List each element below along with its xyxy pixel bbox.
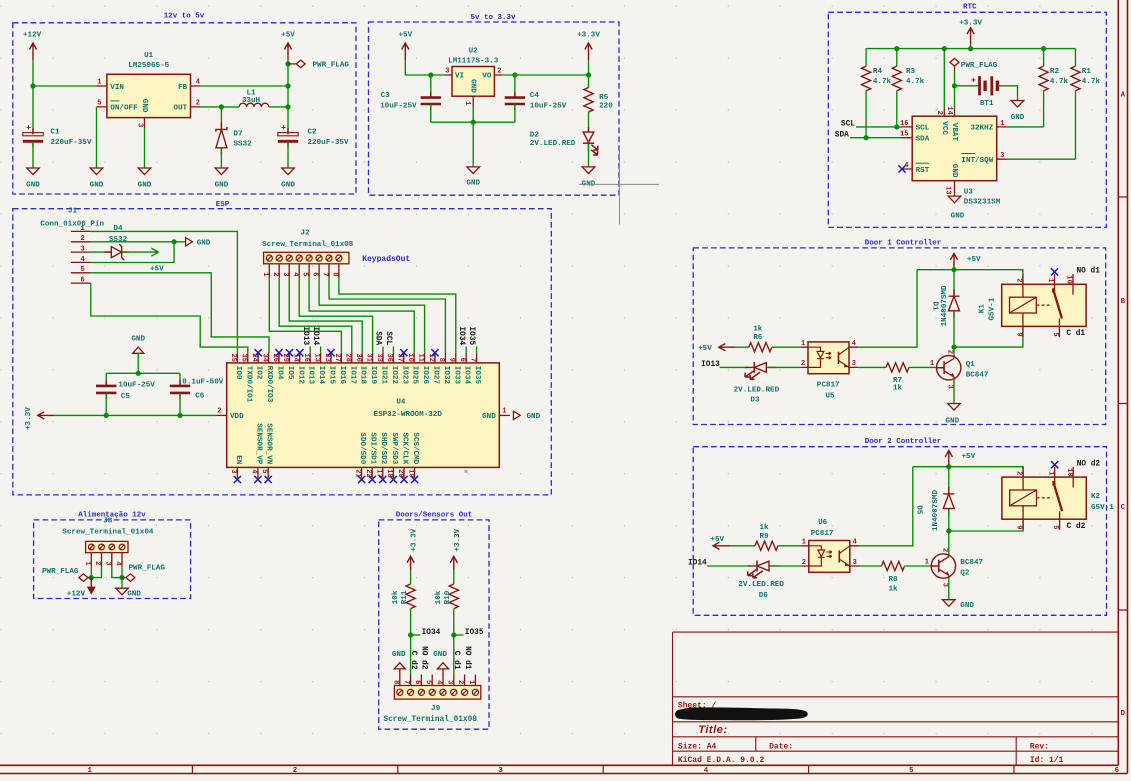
wire +12V to VIN and C1 <box>32 60 34 134</box>
wire VO <box>502 74 588 76</box>
svg-text:1: 1 <box>261 272 269 276</box>
svg-text:D2: D2 <box>530 131 540 139</box>
svg-text:9: 9 <box>1015 525 1023 529</box>
svg-text:5: 5 <box>80 266 84 274</box>
svg-text:U6: U6 <box>818 519 828 527</box>
wire to opto pin4 door2 <box>859 467 913 546</box>
svg-text:IO23: IO23 <box>400 366 408 385</box>
svg-text:+5V: +5V <box>967 256 981 264</box>
svg-text:C3: C3 <box>381 92 391 100</box>
terminal J9 Screw_Terminal_01x08 <box>394 686 480 700</box>
svg-text:SWP/SD3: SWP/SD3 <box>390 432 398 464</box>
svg-text:C d1: C d1 <box>1066 330 1085 338</box>
svg-text:IO33: IO33 <box>452 366 460 385</box>
svg-text:VDD: VDD <box>230 413 244 421</box>
svg-text:J9: J9 <box>431 705 441 713</box>
svg-text:IO34: IO34 <box>457 327 465 346</box>
svg-text:28: 28 <box>344 354 352 362</box>
wire J1 pin5 +5V to IO3 <box>91 273 269 353</box>
svg-text:IO2: IO2 <box>255 366 263 380</box>
svg-text:R8: R8 <box>888 576 898 584</box>
svg-text:13: 13 <box>312 354 320 362</box>
svg-text:6: 6 <box>458 358 466 362</box>
svg-text:1: 1 <box>925 558 929 566</box>
svg-text:R1: R1 <box>1082 68 1092 76</box>
svg-text:4: 4 <box>250 469 258 473</box>
junction +12V/VIN <box>30 83 35 88</box>
wire J3 pin1/2 to +12V <box>90 566 92 586</box>
svg-text:4: 4 <box>704 767 709 775</box>
svg-text:Door 2 Controller: Door 2 Controller <box>865 438 942 446</box>
ground U1 <box>138 168 151 175</box>
hier label GND J1 <box>186 238 193 246</box>
junction cap bus <box>136 371 141 376</box>
wire D2 to ground <box>588 143 590 167</box>
svg-text:IO12: IO12 <box>296 366 304 385</box>
svg-text:3: 3 <box>498 767 503 775</box>
wire pwr flag to battery node <box>954 70 956 108</box>
svg-text:+5V: +5V <box>281 32 295 40</box>
svg-text:16: 16 <box>302 354 310 362</box>
svg-text:RST: RST <box>916 167 930 175</box>
svg-text:3: 3 <box>940 583 948 587</box>
svg-text:+3.3V: +3.3V <box>454 528 462 551</box>
no-connect marks U4 top <box>255 349 262 356</box>
transistor Q2 BC847 <box>931 554 955 578</box>
svg-text:2: 2 <box>801 360 805 368</box>
section box Door 1 Controller <box>693 248 1105 425</box>
svg-text:4: 4 <box>291 272 299 276</box>
U4 bottom pins SD <box>361 467 363 478</box>
ground C1 <box>27 168 40 175</box>
wire R11 to IO34 node <box>410 609 412 675</box>
LED D6 2V.LED.RED <box>748 565 779 567</box>
capacitor C3 10uF-25V <box>430 75 432 98</box>
svg-text:22: 22 <box>364 469 372 477</box>
svg-text:0.1uF-50V: 0.1uF-50V <box>182 378 223 386</box>
svg-text:4.7k: 4.7k <box>906 78 925 86</box>
wire Q2 collector <box>948 531 950 554</box>
junction PWR_FLAG node <box>285 61 290 66</box>
svg-text:1: 1 <box>467 680 475 684</box>
svg-text:8: 8 <box>437 358 445 362</box>
svg-text:1k: 1k <box>759 524 769 532</box>
junction C5 vdd <box>104 413 109 418</box>
svg-text:10: 10 <box>406 354 414 362</box>
svg-text:+: + <box>971 76 976 86</box>
U4 right pin GND <box>499 414 510 416</box>
section box Alimentacao 12v <box>34 520 191 599</box>
svg-text:IO34: IO34 <box>422 629 441 637</box>
svg-text:Date:: Date: <box>769 742 793 751</box>
junction bus R2 <box>1041 46 1046 51</box>
svg-text:14: 14 <box>945 106 953 114</box>
svg-text:PC817: PC817 <box>811 530 834 538</box>
svg-text:3: 3 <box>229 469 237 473</box>
optocoupler U5 PC817 <box>808 342 849 374</box>
svg-text:2V.LED.RED: 2V.LED.RED <box>738 581 784 589</box>
svg-text:SS32: SS32 <box>234 141 253 149</box>
junction bus R3 <box>894 46 899 51</box>
svg-text:SENSOR_VP: SENSOR_VP <box>254 423 262 464</box>
svg-text:GND: GND <box>945 418 959 426</box>
wire R8 to Q2 base <box>905 565 932 567</box>
svg-text:VI: VI <box>455 73 464 81</box>
svg-text:GND: GND <box>1011 114 1025 122</box>
svg-text:3: 3 <box>445 680 453 684</box>
svg-text:C: C <box>1121 504 1126 512</box>
label IO14 stub <box>320 347 322 353</box>
svg-text:5: 5 <box>1051 525 1059 529</box>
svg-text:GND: GND <box>138 182 152 190</box>
svg-text:20: 20 <box>396 469 404 477</box>
svg-text:2: 2 <box>1015 471 1023 475</box>
wire R5 to D2 <box>588 112 590 132</box>
svg-text:GND: GND <box>469 79 477 93</box>
resistor R6 1k <box>749 343 772 352</box>
wire battery right to gnd <box>998 86 1017 101</box>
relay K1 G5V-1 <box>1002 284 1086 326</box>
svg-text:+12V: +12V <box>67 590 86 598</box>
svg-text:2: 2 <box>93 561 101 565</box>
U4 bottom-left pins EN SENSOR_VP SENSOR_VN <box>236 467 238 478</box>
svg-text:U1: U1 <box>144 52 154 60</box>
junction FB node <box>285 83 290 88</box>
wire VIN <box>33 85 97 87</box>
svg-text:PWR_FLAG: PWR_FLAG <box>42 568 79 576</box>
svg-text:3: 3 <box>853 559 857 567</box>
power +3.3V out <box>585 43 592 60</box>
svg-text:IO13: IO13 <box>307 366 315 385</box>
power +5V r6 <box>719 344 736 351</box>
ground D7 <box>215 168 228 175</box>
svg-text:33: 33 <box>375 354 383 362</box>
svg-text:GND: GND <box>26 182 40 190</box>
svg-text:Screw_Terminal_01x04: Screw_Terminal_01x04 <box>62 529 154 537</box>
svg-text:Screw_Terminal_01x08: Screw_Terminal_01x08 <box>262 241 354 249</box>
diode D7 SS32 <box>220 107 222 129</box>
svg-text:LM25965-5: LM25965-5 <box>128 62 169 70</box>
wire +5V to R6 <box>736 346 749 348</box>
wire U1 GND pin <box>144 128 146 168</box>
hier label GND U4 <box>513 411 520 419</box>
svg-text:+: + <box>26 123 31 133</box>
wire VCC drop <box>943 49 945 108</box>
wires J2 to U4 <box>269 278 341 353</box>
svg-text:4: 4 <box>196 79 200 87</box>
power +5V out <box>284 43 291 60</box>
svg-text:7: 7 <box>468 358 476 362</box>
svg-text:G5V-1: G5V-1 <box>1091 504 1114 512</box>
svg-text:D1: D1 <box>931 302 939 312</box>
power +5V in <box>402 43 409 60</box>
power +3.3V rtc <box>967 28 974 45</box>
svg-text:GND: GND <box>281 182 295 190</box>
svg-text:4: 4 <box>114 561 122 565</box>
power flag PWR_FLAG <box>288 63 296 65</box>
svg-text:C d2: C d2 <box>1067 523 1086 531</box>
svg-text:18: 18 <box>385 469 393 477</box>
junction bus VCC <box>942 46 947 51</box>
svg-text:BC847: BC847 <box>966 371 989 379</box>
svg-text:5: 5 <box>301 272 309 276</box>
svg-text:C4: C4 <box>530 92 540 100</box>
svg-text:GND: GND <box>466 180 480 188</box>
svg-text:D6: D6 <box>759 592 769 600</box>
power +12V down <box>90 577 92 587</box>
junction J1 pin2/pin4 <box>172 239 177 244</box>
svg-text:1k: 1k <box>753 326 763 334</box>
svg-text:KiCad E.D.A. 9.0.2: KiCad E.D.A. 9.0.2 <box>678 756 765 765</box>
wire Q1 collector <box>953 347 955 355</box>
svg-text:SCL: SCL <box>384 331 392 345</box>
svg-text:+5V: +5V <box>150 266 164 274</box>
svg-text:SDA: SDA <box>916 136 930 144</box>
wire ON/OFF to gnd <box>96 107 98 168</box>
svg-text:Id: 1/1: Id: 1/1 <box>1030 756 1064 765</box>
resistor R10 10k <box>449 584 458 609</box>
diode D5 1N4007SMD <box>948 467 950 494</box>
svg-text:R7: R7 <box>893 377 903 385</box>
svg-text:Doors/Sensors Out: Doors/Sensors Out <box>396 512 473 520</box>
junction OUT/D7 <box>219 104 224 109</box>
capacitor C2 220uF-35V <box>287 128 289 147</box>
svg-text:R3: R3 <box>906 68 916 76</box>
svg-text:J2: J2 <box>300 230 310 238</box>
svg-text:220uF-35V: 220uF-35V <box>50 139 91 147</box>
svg-text:R2: R2 <box>1050 68 1060 76</box>
svg-text:6: 6 <box>1115 767 1120 775</box>
wire to opto pin4 <box>858 270 917 348</box>
svg-text:Screw_Terminal_01x08: Screw_Terminal_01x08 <box>383 716 477 724</box>
svg-text:BC847: BC847 <box>960 559 983 567</box>
svg-text:IO35: IO35 <box>465 629 484 637</box>
svg-text:IO34: IO34 <box>463 366 471 385</box>
resistor R1 4.7k <box>1075 49 1077 67</box>
LED D3 2V.LED.RED <box>745 366 776 368</box>
svg-text:+5V: +5V <box>710 536 724 544</box>
svg-text:7: 7 <box>402 680 410 684</box>
svg-text:IO14: IO14 <box>311 327 319 346</box>
svg-text:3: 3 <box>103 561 111 565</box>
svg-text:IO15: IO15 <box>328 366 336 385</box>
svg-text:1: 1 <box>502 407 506 415</box>
svg-text:4.7k: 4.7k <box>1050 78 1069 86</box>
rtc top bus <box>866 48 1075 50</box>
svg-text:Size: A4: Size: A4 <box>678 742 717 751</box>
svg-text:3: 3 <box>445 68 449 76</box>
ground ON/OFF <box>90 168 103 175</box>
svg-text:SENSOR_VN: SENSOR_VN <box>265 423 273 464</box>
svg-text:INT/SQW: INT/SQW <box>961 157 993 165</box>
svg-text:3: 3 <box>281 272 289 276</box>
svg-text:GND: GND <box>951 213 965 221</box>
svg-text:1: 1 <box>802 539 806 547</box>
svg-text:5: 5 <box>909 767 914 775</box>
svg-text:35: 35 <box>240 354 248 362</box>
svg-text:6: 6 <box>311 272 319 276</box>
svg-text:IO5: IO5 <box>286 366 294 380</box>
svg-text:U5: U5 <box>826 393 836 401</box>
svg-text:IO21: IO21 <box>380 366 388 385</box>
svg-text:220: 220 <box>599 102 613 110</box>
door2 rail to relay <box>949 519 1023 531</box>
wire IO13 to LED D3 <box>720 366 749 368</box>
label SCL stub <box>392 347 394 353</box>
svg-text:D7: D7 <box>234 130 244 138</box>
svg-text:12v to 5v: 12v to 5v <box>164 13 205 21</box>
ground U2 <box>467 167 480 174</box>
svg-text:GND: GND <box>482 413 496 421</box>
LED D2 2V.LED.RED <box>588 127 590 151</box>
resistor R8 1k <box>882 561 905 570</box>
svg-text:10k: 10k <box>435 590 443 604</box>
label IO35 out <box>454 634 464 636</box>
svg-text:3: 3 <box>852 360 856 368</box>
svg-text:SCL: SCL <box>841 120 855 128</box>
svg-text:220uF-35V: 220uF-35V <box>308 139 349 147</box>
junction C3 <box>428 72 433 77</box>
section box 5v to 3.3v <box>369 22 620 195</box>
svg-text:IO17: IO17 <box>348 366 356 385</box>
svg-text:1: 1 <box>463 101 471 105</box>
svg-text:1: 1 <box>87 767 92 775</box>
svg-text:GND: GND <box>527 413 541 421</box>
svg-text:RTC: RTC <box>963 4 977 12</box>
svg-text:R5: R5 <box>599 94 609 102</box>
power GND J9 pin8 <box>394 663 405 669</box>
svg-text:2: 2 <box>271 272 279 276</box>
junction IO35 <box>451 632 456 637</box>
svg-text:6: 6 <box>80 277 84 285</box>
svg-text:36: 36 <box>385 354 393 362</box>
svg-text:32KHZ: 32KHZ <box>971 125 994 133</box>
U4 top pins <box>236 353 238 363</box>
svg-text:2: 2 <box>1015 278 1023 282</box>
svg-text:1: 1 <box>1000 120 1004 128</box>
svg-text:3: 3 <box>1000 152 1004 160</box>
svg-text:GND: GND <box>215 182 229 190</box>
wire D4 arrow <box>122 248 159 256</box>
esp32 module U4 ESP32-WROOM-32D <box>227 363 500 468</box>
svg-text:G5V-1: G5V-1 <box>989 297 997 320</box>
door2 top bus <box>913 467 1023 477</box>
junction +5V door2 <box>946 464 951 469</box>
svg-text:Rev:: Rev: <box>1030 742 1049 751</box>
svg-text:1N4007SMD: 1N4007SMD <box>932 490 940 531</box>
wire R9 to opto1 door2 <box>778 545 801 547</box>
svg-text:SHD/SD2: SHD/SD2 <box>379 432 387 464</box>
svg-text:ON/OFF: ON/OFF <box>110 105 138 113</box>
svg-text:IO16: IO16 <box>338 366 346 385</box>
svg-text:25: 25 <box>229 354 237 362</box>
svg-text:PWR_FLAG: PWR_FLAG <box>961 62 998 70</box>
svg-text:2: 2 <box>217 407 221 415</box>
no-connect RST <box>898 165 905 172</box>
svg-text:IO4: IO4 <box>276 366 284 380</box>
label IO13 stub <box>309 347 311 353</box>
svg-text:10uF-25V: 10uF-25V <box>530 102 567 110</box>
svg-text:R11: R11 <box>401 590 409 604</box>
svg-text:9: 9 <box>448 358 456 362</box>
svg-text:GND: GND <box>140 99 148 113</box>
svg-text:2V.LED.RED: 2V.LED.RED <box>734 387 780 395</box>
svg-text:+: + <box>281 123 286 133</box>
svg-text:2: 2 <box>456 680 464 684</box>
svg-text:2: 2 <box>196 100 200 108</box>
section box ESP <box>13 209 552 495</box>
svg-text:SCK/CLK: SCK/CLK <box>400 432 408 464</box>
resistor R11 10k <box>406 584 415 609</box>
svg-text:11: 11 <box>416 354 424 362</box>
svg-text:4: 4 <box>435 680 443 684</box>
ground U3 <box>948 196 961 203</box>
capacitor C5 10uF-25V <box>105 373 107 386</box>
svg-text:5: 5 <box>1051 332 1059 336</box>
svg-text:10: 10 <box>1065 468 1073 476</box>
svg-text:VBAT: VBAT <box>950 123 958 142</box>
svg-text:GND: GND <box>960 602 974 610</box>
svg-text:IO25: IO25 <box>411 366 419 385</box>
svg-text:SDO/SD0: SDO/SD0 <box>358 432 366 464</box>
svg-text:IO35: IO35 <box>473 366 481 385</box>
svg-text:NO d1: NO d1 <box>463 646 471 670</box>
svg-text:C6: C6 <box>195 392 205 400</box>
junction IO34 <box>408 632 413 637</box>
svg-text:10: 10 <box>1065 275 1073 283</box>
svg-text:J1: J1 <box>68 208 78 216</box>
wire J1 pin2 to GND label <box>91 241 186 243</box>
svg-text:SDA: SDA <box>374 331 382 345</box>
svg-text:2: 2 <box>293 767 297 775</box>
svg-text:D4: D4 <box>113 225 123 233</box>
svg-text:4: 4 <box>853 539 857 547</box>
svg-text:LM1117S-3.3: LM1117S-3.3 <box>448 58 499 66</box>
section box RTC <box>828 12 1106 227</box>
svg-text:SDI/SD1: SDI/SD1 <box>369 432 377 464</box>
svg-text:Title:: Title: <box>698 724 727 736</box>
wire Q1 emitter to gnd <box>953 380 955 404</box>
svg-text:IO27: IO27 <box>432 366 440 385</box>
junction R3 SCL <box>894 124 899 129</box>
svg-text:9: 9 <box>1015 332 1023 336</box>
svg-text:3: 3 <box>136 123 144 127</box>
junction bus +3.3V <box>968 46 973 51</box>
resistor R3 4.7k <box>896 49 898 67</box>
svg-text:Door 1 Controller: Door 1 Controller <box>865 239 942 247</box>
wire vdd rail <box>55 414 217 416</box>
wire INT/SQW to R1 <box>1007 158 1076 160</box>
svg-text:SCS/CMD: SCS/CMD <box>411 432 419 464</box>
svg-text:R10: R10 <box>444 590 452 604</box>
svg-text:+5V: +5V <box>962 453 976 461</box>
ground Q2 <box>943 600 956 607</box>
junction +5V door1 <box>951 267 956 272</box>
resistor R5 220 <box>584 88 593 113</box>
power +5V door2 <box>945 450 952 467</box>
wire +5V to VI <box>405 60 444 75</box>
wire R6 to opto pin1 <box>772 346 801 348</box>
svg-text:C d2: C d2 <box>409 651 417 670</box>
svg-text:IO22: IO22 <box>390 366 398 385</box>
wire +5V rail <box>287 60 289 134</box>
svg-text:D5: D5 <box>914 505 922 515</box>
capacitor C6 0.1uF-50V <box>179 373 181 386</box>
power +5V door1 <box>950 253 957 270</box>
junction R4 SDA <box>864 135 869 140</box>
svg-text:PC817: PC817 <box>817 382 840 390</box>
junction C4 <box>512 72 517 77</box>
